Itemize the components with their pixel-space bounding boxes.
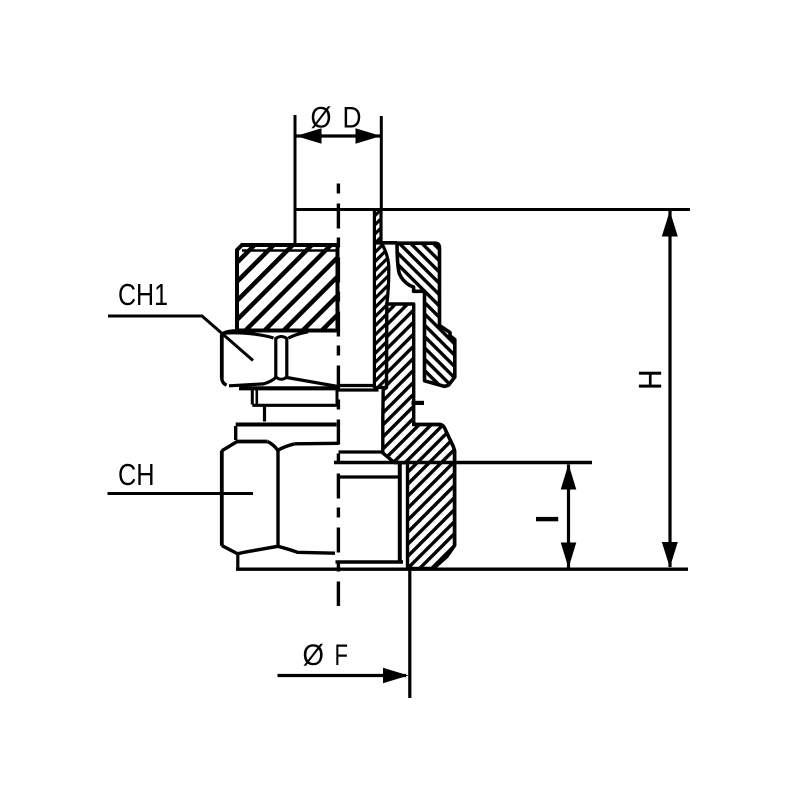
ring i below nut xyxy=(252,390,338,405)
dim extension right xyxy=(380,116,383,210)
I reference line xyxy=(334,461,592,464)
dimension I xyxy=(536,464,576,568)
internal bore chamfer line xyxy=(339,450,383,453)
svg-text:F: F xyxy=(335,639,349,672)
collar left view xyxy=(222,426,339,451)
dimension H xyxy=(639,211,678,568)
tube left wall / dim extension xyxy=(294,115,297,244)
dimension F xyxy=(278,569,410,698)
bottom face line xyxy=(236,568,688,571)
centerline dashed xyxy=(337,184,340,607)
CH1 label + leader xyxy=(108,277,253,361)
svg-text:CH1: CH1 xyxy=(118,277,168,312)
body upper part (b) in section, reverse hatch xyxy=(373,243,455,387)
body (column + collar + lower hex) in section xyxy=(383,304,455,569)
svg-text:CH: CH xyxy=(118,457,155,492)
bore top edge xyxy=(338,475,400,478)
top hex nut CH1 front view xyxy=(222,331,379,390)
hatched section: top nut left half xyxy=(237,245,338,331)
tube wall strip (section) xyxy=(374,210,389,389)
ring ii xyxy=(263,405,266,421)
svg-text:Ø: Ø xyxy=(311,101,332,134)
CH label + leader xyxy=(108,457,254,494)
collar top edge left view xyxy=(236,423,337,427)
dimension D xyxy=(296,101,381,144)
svg-text:Ø: Ø xyxy=(303,639,325,672)
svg-text:D: D xyxy=(343,101,362,134)
lower hex CH front view xyxy=(222,450,335,568)
bore thread major line xyxy=(398,463,402,563)
top face line xyxy=(294,208,690,211)
bore bottom edge xyxy=(336,560,404,563)
